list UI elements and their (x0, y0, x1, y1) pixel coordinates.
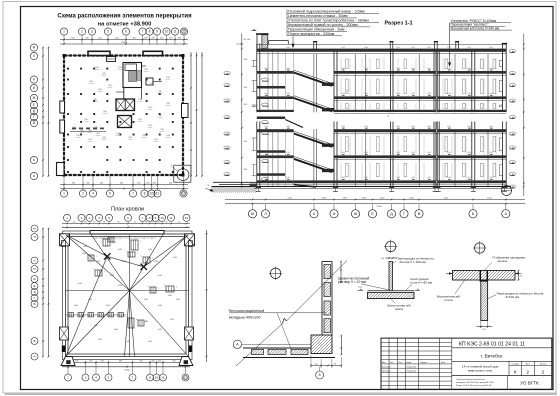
svg-text:60: 60 (151, 221, 153, 223)
svg-text:3000: 3000 (243, 169, 247, 171)
svg-text:10: 10 (150, 192, 154, 196)
roof vent details (86, 236, 178, 329)
svg-text:В: В (33, 302, 35, 306)
svg-text:5: 5 (108, 376, 110, 380)
svg-text:0.000: 0.000 (447, 177, 451, 179)
svg-text:6: 6 (125, 30, 127, 34)
svg-text:1: 1 (140, 241, 141, 243)
svg-text:Монолитная ж/б плита δ=240 мм: Монолитная ж/б плита δ=240 мм (451, 26, 500, 30)
svg-text:Керамзитовый гравий по уклону: Керамзитовый гравий по уклону - 200мм (288, 23, 358, 27)
plan1 top dimension lines (60, 37, 188, 45)
plan1 right wall shaft (182, 104, 189, 118)
svg-text:Листов: Листов (540, 363, 548, 365)
svg-text:0.000: 0.000 (341, 47, 345, 49)
svg-text:2: 2 (527, 369, 530, 374)
svg-text:i=3%: i=3% (144, 321, 149, 323)
svg-text:В: В (418, 211, 421, 216)
svg-text:0.000: 0.000 (427, 177, 431, 179)
svg-text:г. Витебск: г. Витебск (481, 353, 504, 359)
section storey number labels (346, 90, 389, 119)
svg-text:0.000: 0.000 (286, 152, 290, 154)
svg-text:60: 60 (93, 221, 95, 223)
svg-text:11: 11 (156, 192, 160, 196)
svg-text:Пароизоляция обмазочная - 2мм: Пароизоляция обмазочная - 2мм (288, 27, 345, 31)
svg-text:0.000: 0.000 (411, 177, 415, 179)
corner detail axis bubble bottom (316, 367, 324, 379)
roof top middle raised parapet (90, 231, 164, 235)
svg-text:0.000: 0.000 (341, 177, 345, 179)
svg-text:i=3%: i=3% (168, 295, 173, 297)
plan1 opening crossed box 2 (118, 116, 132, 128)
svg-text:i=3%: i=3% (154, 261, 159, 263)
svg-text:0.000: 0.000 (341, 68, 345, 70)
svg-text:i=3%: i=3% (158, 305, 163, 307)
svg-text:Перегородка из ячеистого бетон: Перегородка из ячеистого бетона (497, 291, 544, 295)
svg-text:0.000: 0.000 (447, 93, 451, 95)
svg-text:5: 5 (108, 216, 110, 220)
roof left axis bubbles (31, 225, 38, 360)
section floor slabs upper (257, 49, 506, 114)
svg-text:i=3%: i=3% (110, 275, 115, 277)
svg-text:Петрученко: Петрученко (407, 366, 417, 368)
section storey door-window rectangles lower (341, 136, 496, 181)
svg-text:60: 60 (158, 221, 160, 223)
svg-text:перекрытия М 1:200, План кровл: перекрытия М 1:200, План кровли М 1:200, (456, 382, 494, 384)
plan1 left axis bubbles (30, 44, 37, 180)
svg-text:0.000: 0.000 (286, 126, 290, 128)
plan1 right dimension lines (190, 52, 203, 177)
corner detail dimensions (310, 261, 342, 368)
svg-text:3000: 3000 (243, 59, 247, 61)
svg-text:9: 9 (155, 216, 157, 220)
svg-text:i=3%: i=3% (106, 305, 111, 307)
svg-text:В: В (33, 121, 35, 125)
svg-text:0.000: 0.000 (467, 93, 471, 95)
corner detail vertical wall insulation inserts (310, 265, 344, 333)
svg-text:0.000: 0.000 (411, 152, 415, 154)
plan1 left wall pilaster lower (60, 120, 65, 133)
title block notes and organization (456, 376, 539, 390)
svg-text:раствор δ = 10 мм: раствор δ = 10 мм (338, 280, 367, 284)
svg-text:КП КЭС 2-69 01 01 24 01 11: КП КЭС 2-69 01 01 24 01 11 (459, 342, 525, 348)
svg-text:1: 1 (66, 216, 68, 220)
svg-text:0.000: 0.000 (489, 68, 493, 70)
svg-text:0.000: 0.000 (264, 68, 268, 70)
svg-text:0.000: 0.000 (396, 93, 400, 95)
svg-text:0.000: 0.000 (364, 68, 368, 70)
svg-text:600: 600 (89, 360, 92, 362)
roof top dimension lines (62, 221, 190, 228)
svg-text:Б: Б (33, 158, 35, 162)
plan1 core wall segments (116, 66, 162, 99)
roof left dimension lines (42, 228, 49, 358)
plan1 lower-left detail cluster (70, 128, 106, 132)
svg-text:i=3%: i=3% (176, 299, 181, 301)
svg-text:бетона δ = 100 мм: бетона δ = 100 мм (400, 260, 426, 264)
svg-text:Е: Е (371, 211, 374, 216)
plan1 left dimension lines (42, 47, 49, 177)
section right legend leader arrow (448, 23, 451, 67)
svg-text:220: 220 (519, 276, 522, 278)
node3 label channel (485, 255, 526, 270)
svg-text:11: 11 (169, 216, 172, 220)
plan1 elevator car left (129, 71, 137, 82)
svg-text:Разрез 1-1: Разрез 1-1 (384, 20, 412, 26)
section small level marks on slabs (264, 47, 493, 180)
svg-text:0.000: 0.000 (411, 47, 415, 49)
svg-text:3000: 3000 (243, 104, 247, 106)
svg-text:М: М (251, 211, 254, 216)
svg-text:0.000: 0.000 (286, 47, 290, 49)
node3 slab end marks (446, 270, 523, 281)
svg-text:600: 600 (75, 360, 78, 362)
svg-text:25300: 25300 (376, 206, 382, 208)
svg-text:квартирного типа: квартирного типа (468, 369, 492, 373)
svg-text:Ж: Ж (33, 96, 36, 100)
roof scattered texts (74, 242, 181, 343)
svg-text:0.000: 0.000 (264, 93, 268, 95)
svg-text:0.000: 0.000 (447, 47, 451, 49)
svg-text:0.000: 0.000 (341, 126, 345, 128)
svg-text:0.000: 0.000 (264, 177, 268, 179)
roof slope diagonals (66, 235, 188, 357)
roof outline wall inner (68, 237, 186, 355)
svg-text:10: 10 (155, 376, 159, 380)
svg-text:i=3%: i=3% (96, 261, 101, 263)
svg-text:0.000: 0.000 (396, 177, 400, 179)
roof bottom corner tabs (61, 357, 193, 366)
section stair gap flight stub (285, 120, 303, 128)
node2 leader level marks (358, 287, 421, 291)
svg-text:1: 1 (158, 288, 159, 290)
section foundations (256, 187, 508, 192)
corner detail node circle (270, 268, 280, 278)
svg-text:600: 600 (119, 360, 122, 362)
svg-text:Е: Е (33, 284, 35, 288)
section right legend (450, 19, 512, 30)
sheet shadow bottom (5, 393, 557, 395)
node2 floor lines (368, 290, 415, 292)
roof corner squares (60, 234, 195, 246)
svg-text:100: 100 (482, 329, 485, 331)
node2 label partition (393, 256, 434, 264)
corner detail diagonal axis line (236, 261, 347, 367)
svg-text:1: 1 (63, 192, 65, 196)
plan1 bottom-left pilaster (57, 163, 65, 176)
svg-text:Схема расположения элементов: Схема расположения элементов (456, 379, 485, 381)
roof vent chain row (66, 313, 126, 317)
title block city row (452, 353, 552, 361)
svg-text:7: 7 (142, 216, 144, 220)
svg-text:0.000: 0.000 (264, 152, 268, 154)
svg-text:i=3%: i=3% (112, 242, 117, 244)
svg-text:Цементно-песчаная стяжка - 30м: Цементно-песчаная стяжка - 30мм (288, 14, 348, 18)
svg-text:i=3%: i=3% (114, 329, 119, 331)
svg-text:i=3%: i=3% (78, 283, 83, 285)
svg-text:600: 600 (140, 360, 143, 362)
node3 detail circle (475, 243, 485, 253)
svg-text:0.000: 0.000 (489, 47, 493, 49)
svg-text:0.000: 0.000 (341, 93, 345, 95)
title block outline (381, 338, 552, 389)
section stair flights (294, 70, 334, 187)
node2 partition (360, 262, 420, 291)
svg-text:600: 600 (173, 360, 176, 362)
svg-text:i=3%: i=3% (98, 339, 103, 341)
svg-text:0.000: 0.000 (467, 126, 471, 128)
svg-text:Утеплитель из плит полистиролб: Утеплитель из плит полистиролбетона - 28… (288, 19, 369, 23)
section bottom dimension lines (225, 197, 525, 208)
plan1 bottom dimension lines (60, 182, 188, 189)
section stair half-landings (257, 86, 285, 176)
svg-text:0.000: 0.000 (396, 152, 400, 154)
svg-text:М: М (33, 227, 36, 231)
svg-text:0.000: 0.000 (467, 177, 471, 179)
section right level flags (509, 34, 524, 197)
roof top interior dim specks (92, 237, 156, 240)
node2 label mortar (338, 276, 389, 289)
corner detail horizontal wall (243, 348, 335, 358)
svg-text:Б: Б (472, 211, 475, 216)
svg-text:i=3%: i=3% (158, 329, 163, 331)
svg-text:3: 3 (89, 216, 91, 220)
svg-text:600: 600 (101, 360, 104, 362)
svg-text:Лист: Лист (526, 363, 531, 365)
svg-text:0.000: 0.000 (264, 126, 268, 128)
svg-text:3000: 3000 (243, 87, 247, 89)
section ground line (212, 187, 512, 189)
svg-text:Ж: Ж (354, 211, 358, 216)
svg-text:1: 1 (63, 30, 65, 34)
roof drain funnels (104, 253, 147, 270)
svg-text:i=3%: i=3% (138, 265, 143, 267)
svg-text:пола δ = 80 мм: пола δ = 80 мм (411, 280, 433, 284)
section wall verticals lower portion (257, 122, 506, 188)
svg-text:11: 11 (161, 376, 164, 380)
svg-text:Кол: Кол (390, 362, 393, 364)
svg-text:24000: 24000 (124, 370, 130, 372)
svg-text:0.000: 0.000 (286, 93, 290, 95)
roof outline wall outer (66, 234, 189, 357)
svg-text:Е: Е (33, 103, 35, 107)
plan1 column dots (67, 68, 174, 173)
svg-text:i=3%: i=3% (94, 325, 99, 327)
node2 label slab (387, 298, 411, 312)
node2 label floor construction (406, 277, 432, 290)
svg-text:Г: Г (33, 115, 35, 119)
svg-text:0.000: 0.000 (396, 126, 400, 128)
section left legend roof layers (287, 9, 379, 36)
svg-text:0.000: 0.000 (427, 68, 431, 70)
plan1 corner detail circle (177, 169, 189, 181)
svg-text:0.000: 0.000 (489, 126, 493, 128)
svg-text:+38,900: +38,900 (236, 44, 244, 46)
svg-text:Дата: Дата (441, 362, 445, 364)
svg-text:УО ВГТК: УО ВГТК (520, 381, 539, 386)
svg-text:i=3%: i=3% (148, 341, 153, 343)
svg-text:Ж: Ж (33, 277, 36, 281)
svg-text:Теплоизоляционный: Теплоизоляционный (228, 309, 264, 313)
svg-text:0.000: 0.000 (364, 47, 368, 49)
svg-text:Л: Л (264, 211, 267, 216)
svg-text:0.000: 0.000 (411, 68, 415, 70)
svg-text:вкладыш 400х100: вкладыш 400х100 (229, 315, 261, 319)
svg-text:0.000: 0.000 (396, 68, 400, 70)
svg-text:0.000: 0.000 (427, 47, 431, 49)
plan1 elevator shaft (123, 63, 142, 88)
svg-text:К: К (514, 369, 517, 374)
title block designation row (452, 342, 552, 348)
svg-text:деталь: деталь (498, 259, 508, 263)
svg-text:1: 1 (67, 376, 69, 380)
svg-text:i=3%: i=3% (122, 261, 127, 263)
roof side X boxes lower (60, 327, 194, 340)
node2 partition top dimension (381, 257, 397, 260)
svg-text:0.000: 0.000 (489, 93, 493, 95)
svg-text:И: И (33, 267, 35, 271)
svg-text:3000: 3000 (243, 141, 247, 143)
svg-text:8: 8 (149, 216, 151, 220)
svg-text:60: 60 (145, 221, 147, 223)
section bottom axis bubbles (248, 204, 510, 218)
svg-text:24000: 24000 (121, 42, 128, 44)
svg-text:1: 1 (176, 287, 177, 289)
svg-text:1: 1 (137, 253, 138, 255)
svg-text:Основной гидроизоляционный ков: Основной гидроизоляционный ковер - 3,5мм (288, 10, 365, 14)
svg-text:i=3%: i=3% (158, 275, 163, 277)
section left parapet hatched block (248, 33, 280, 48)
section outer wall windows (252, 61, 503, 176)
plan1 corner detail box (174, 165, 191, 182)
svg-text:0.000: 0.000 (427, 152, 431, 154)
roof right dimension line (206, 230, 208, 362)
plan1 view direction mark (206, 184, 214, 191)
plan1 outer wall (64, 56, 183, 176)
section raised parapet segment (269, 41, 289, 45)
plan1 elevator car right (137, 71, 141, 80)
svg-text:План кровли: План кровли (111, 206, 144, 212)
svg-text:1: 1 (96, 256, 97, 258)
svg-text:0.000: 0.000 (396, 47, 400, 49)
title block signature texts (382, 361, 445, 373)
section stair shaft thin verticals (268, 52, 294, 187)
svg-text:0.000: 0.000 (364, 126, 368, 128)
svg-text:2: 2 (85, 376, 87, 380)
plan1 top parapet tab right (143, 51, 163, 55)
svg-text:60: 60 (178, 221, 180, 223)
svg-text:Стадия: Стадия (512, 363, 519, 365)
section entrance porch (201, 182, 270, 193)
svg-text:Схема расположения элементов п: Схема расположения элементов перекрытия (57, 13, 192, 19)
svg-text:i=3%: i=3% (74, 305, 79, 307)
roof top axis bubbles (64, 214, 191, 221)
title block project name (452, 364, 552, 375)
svg-text:0.000: 0.000 (411, 93, 415, 95)
svg-text:2: 2 (81, 216, 83, 220)
corner detail vertical wall (322, 262, 332, 336)
svg-text:100: 100 (381, 258, 384, 260)
svg-text:0.000: 0.000 (286, 177, 290, 179)
svg-text:Проверил: Проверил (382, 371, 390, 373)
svg-text:Выполнил: Выполнил (382, 366, 391, 368)
svg-text:0.000: 0.000 (467, 68, 471, 70)
svg-text:2: 2 (82, 192, 84, 196)
svg-text:Плита перекрытия - 220мм: Плита перекрытия - 220мм (288, 32, 335, 36)
svg-text:8: 8 (144, 192, 146, 196)
svg-text:3: 3 (91, 30, 93, 34)
svg-text:90: 90 (334, 363, 336, 365)
svg-text:Б: Б (33, 339, 35, 343)
svg-text:0.000: 0.000 (364, 152, 368, 154)
svg-text:М: М (33, 46, 36, 50)
svg-text:12: 12 (185, 216, 189, 220)
svg-text:0.000: 0.000 (411, 126, 415, 128)
svg-text:0.000: 0.000 (447, 68, 451, 70)
plan1 corner node label (171, 164, 178, 172)
plan1 shaft inner box (125, 64, 137, 71)
svg-text:И: И (333, 211, 336, 216)
svg-text:60: 60 (134, 221, 136, 223)
section wall verticals upper portion (257, 44, 506, 113)
roof bottom dimension lines (62, 360, 190, 371)
svg-text:11: 11 (173, 30, 177, 34)
svg-text:0.000: 0.000 (447, 126, 451, 128)
svg-text:9: 9 (156, 30, 158, 34)
svg-text:i=3%: i=3% (118, 249, 123, 251)
svg-text:А: А (504, 211, 507, 216)
svg-text:60: 60 (73, 221, 75, 223)
svg-text:60: 60 (165, 221, 167, 223)
svg-text:Лист: Лист (399, 362, 403, 364)
svg-text:0.000: 0.000 (467, 152, 471, 154)
roof outline outer line (63, 231, 193, 360)
svg-text:на отметке +38.900: на отметке +38.900 (98, 21, 152, 27)
plan1 top axis bubbles (60, 28, 187, 45)
svg-text:6: 6 (127, 216, 129, 220)
svg-text:i=3%: i=3% (144, 299, 149, 301)
svg-text:60: 60 (117, 221, 119, 223)
roof side tab marks (62, 241, 193, 353)
svg-text:4: 4 (95, 376, 97, 380)
svg-text:0,00: 0,00 (358, 287, 362, 289)
plan1 bottom axis bubbles (60, 176, 187, 197)
svg-text:0.000: 0.000 (489, 152, 493, 154)
svg-text:Л: Л (33, 235, 35, 239)
svg-text:i=3%: i=3% (170, 319, 175, 321)
svg-text:600: 600 (158, 360, 161, 362)
svg-text:i=3%: i=3% (88, 299, 93, 301)
svg-text:i=3%: i=3% (82, 253, 87, 255)
svg-text:Разрез 1-1 М 1:100, констр. уз: Разрез 1-1 М 1:100, констр. узлы М 1:20 (456, 385, 491, 387)
svg-text:2: 2 (81, 30, 83, 34)
svg-text:i=3%: i=3% (126, 341, 131, 343)
svg-text:№док: №док (407, 361, 412, 364)
svg-text:плита: плита (395, 307, 404, 311)
svg-text:4: 4 (98, 216, 100, 220)
svg-text:i=3%: i=3% (148, 249, 153, 251)
corner detail horizontal wall insulation inserts (246, 349, 310, 354)
svg-text:0.000: 0.000 (264, 47, 268, 49)
svg-text:60: 60 (103, 221, 105, 223)
svg-text:i=3%: i=3% (83, 246, 88, 248)
svg-text:0.000: 0.000 (341, 152, 345, 154)
plan1 stair opening crossed boxes (116, 99, 135, 111)
svg-text:1: 1 (152, 258, 153, 260)
svg-text:Л: Л (33, 54, 35, 58)
svg-text:i=3%: i=3% (118, 285, 123, 287)
svg-text:5: 5 (107, 30, 109, 34)
plan1 left wall pilaster upper (60, 101, 65, 113)
